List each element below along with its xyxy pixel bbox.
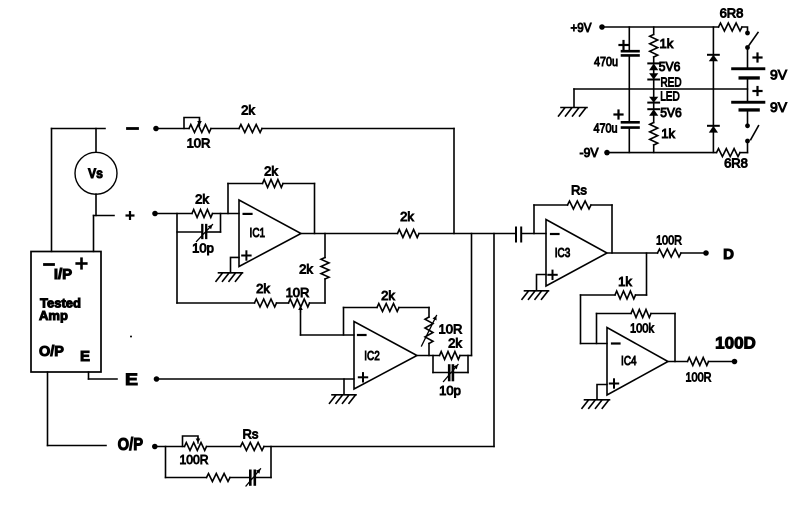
svg-text:1k: 1k <box>660 36 674 51</box>
svg-text:2k: 2k <box>195 192 209 207</box>
svg-text:10R: 10R <box>439 322 463 337</box>
svg-text:100R: 100R <box>180 452 209 467</box>
svg-text:O/P: O/P <box>39 344 64 360</box>
svg-text:-9V: -9V <box>580 145 599 160</box>
svg-text:2k: 2k <box>448 336 462 351</box>
svg-text:100k: 100k <box>630 321 654 336</box>
svg-text:100R: 100R <box>656 233 682 248</box>
svg-text:10p: 10p <box>192 241 214 256</box>
svg-text:2k: 2k <box>256 281 270 296</box>
svg-text:Rs: Rs <box>243 427 259 442</box>
svg-text:I/P: I/P <box>54 266 72 283</box>
svg-text:2k: 2k <box>241 103 255 118</box>
svg-text:9V: 9V <box>770 67 788 83</box>
svg-text:6R8: 6R8 <box>724 156 748 171</box>
svg-text:IC3: IC3 <box>555 245 571 260</box>
svg-text:Amp: Amp <box>39 308 68 323</box>
svg-text:+9V: +9V <box>571 20 592 35</box>
svg-text:470u: 470u <box>594 54 618 69</box>
svg-text:6R8: 6R8 <box>720 6 744 21</box>
svg-text:5V6: 5V6 <box>659 59 681 74</box>
svg-text:470u: 470u <box>594 121 618 136</box>
svg-text:2k: 2k <box>299 262 313 277</box>
svg-text:2k: 2k <box>400 209 414 224</box>
svg-text:D: D <box>723 246 734 263</box>
svg-text:E: E <box>125 370 138 389</box>
svg-text:100D: 100D <box>715 334 756 353</box>
svg-text:O/P: O/P <box>118 434 144 454</box>
svg-text:5V6: 5V6 <box>660 105 682 120</box>
svg-text:2k: 2k <box>381 288 395 303</box>
svg-text:10p: 10p <box>439 383 461 398</box>
svg-text:2k: 2k <box>264 164 278 179</box>
svg-text:1k: 1k <box>618 274 632 289</box>
svg-text:1k: 1k <box>661 126 675 141</box>
svg-text:RED: RED <box>661 74 682 89</box>
svg-text:LED: LED <box>660 89 680 104</box>
svg-text:IC1: IC1 <box>250 225 266 240</box>
svg-text:Rs: Rs <box>571 183 587 198</box>
svg-text:100R: 100R <box>686 370 712 385</box>
svg-text:10R: 10R <box>286 285 310 300</box>
svg-text:IC2: IC2 <box>364 348 380 363</box>
svg-text:IC4: IC4 <box>621 353 637 368</box>
svg-text:Vs: Vs <box>88 165 103 181</box>
svg-text:9V: 9V <box>770 99 788 115</box>
svg-text:10R: 10R <box>187 136 211 151</box>
svg-text:E: E <box>80 348 90 365</box>
